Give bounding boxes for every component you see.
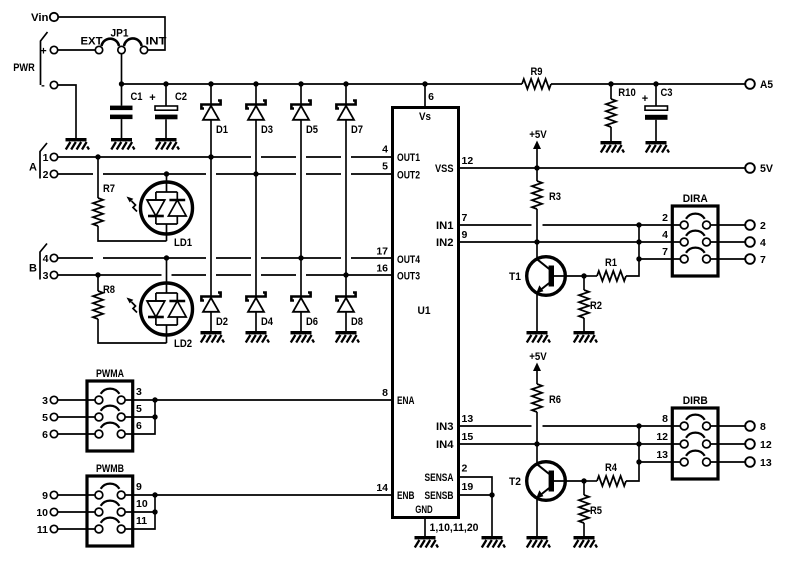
wire IN2 line bbox=[459, 241, 681, 243]
svg-text:+5V: +5V bbox=[529, 129, 547, 141]
wire R3 to IN2 junction bbox=[536, 209, 538, 242]
wire OUT2 segment c bbox=[216, 173, 296, 175]
connector PWMA pin circle row2 right bbox=[117, 413, 125, 421]
svg-text:R7: R7 bbox=[103, 183, 115, 195]
wire IN1 segment b bbox=[543, 224, 681, 226]
junction OUT3/R8 bbox=[95, 272, 100, 277]
terminal B pin3 bbox=[50, 271, 57, 278]
svg-text:U1: U1 bbox=[418, 305, 431, 317]
junction IN1/DIRA col bbox=[636, 222, 641, 227]
wire rail to D5 bbox=[300, 84, 302, 105]
connector PWMA jumper arc row3 bbox=[101, 423, 120, 428]
junction OUT4/D5-D6 bbox=[298, 255, 303, 260]
connector DIRA jumper arc row1 bbox=[686, 214, 705, 219]
junction OUT1/R7 bbox=[95, 154, 100, 159]
svg-text:9: 9 bbox=[42, 490, 48, 502]
jumper JP1 pin INT bbox=[140, 46, 147, 53]
resistor R3 bbox=[532, 181, 542, 209]
wire OUT4 segment a bbox=[58, 257, 93, 259]
svg-text:6: 6 bbox=[136, 420, 142, 432]
wire Vs rail left section bbox=[122, 83, 523, 85]
svg-text:OUT2: OUT2 bbox=[397, 170, 420, 182]
wire R5 top bbox=[583, 481, 585, 495]
wire C2 bottom bbox=[165, 119, 167, 138]
svg-text:ENA: ENA bbox=[397, 395, 415, 407]
wire OUT1 segment d bbox=[351, 156, 393, 158]
svg-text:2: 2 bbox=[760, 220, 766, 232]
wire rail to D1 bbox=[210, 84, 212, 105]
wire OUT1 segment b bbox=[261, 156, 296, 158]
resistor R7 bbox=[93, 198, 103, 226]
terminal DIRA 7 bbox=[745, 254, 755, 264]
wire D2 to ground bbox=[210, 312, 212, 331]
junction OUT1/D1-D2 bbox=[208, 154, 213, 159]
connector PWMB pin circle row1 left bbox=[95, 491, 103, 499]
svg-text:13: 13 bbox=[462, 413, 474, 425]
junction DIRB col row13 bbox=[636, 459, 641, 464]
wire IN3 segment a bbox=[459, 425, 532, 427]
wire node to R1 bbox=[584, 275, 597, 277]
svg-text:17: 17 bbox=[376, 246, 388, 258]
wire U1 pin6 stub bbox=[424, 84, 426, 108]
ground (D8) bbox=[336, 331, 360, 343]
wire D6 to ground bbox=[300, 312, 302, 331]
ground (SENS) bbox=[482, 536, 506, 548]
wire R7 bottom to LD1 bbox=[98, 226, 167, 241]
connector PWMB box bbox=[87, 476, 133, 546]
terminal A pin2 bbox=[50, 170, 57, 177]
wire rail to D3 bbox=[255, 84, 257, 105]
terminal PWMA 3 bbox=[50, 396, 57, 403]
svg-text:1,10,11,20: 1,10,11,20 bbox=[430, 522, 479, 534]
svg-text:R1: R1 bbox=[605, 257, 617, 269]
svg-text:3: 3 bbox=[43, 270, 49, 282]
wire IN3 segment b bbox=[543, 425, 681, 427]
ground (D4) bbox=[246, 331, 270, 343]
svg-text:3: 3 bbox=[42, 395, 48, 407]
resistor R9 bbox=[522, 79, 551, 89]
connector PWMB jumper arc row3 bbox=[101, 518, 120, 523]
svg-text:OUT1: OUT1 bbox=[397, 152, 420, 164]
wire PWMB row3 out bbox=[125, 495, 155, 529]
svg-text:Vs: Vs bbox=[419, 111, 431, 123]
wire U1 GND stub bbox=[424, 518, 426, 537]
svg-text:16: 16 bbox=[376, 263, 388, 275]
connector DIRB box bbox=[672, 408, 718, 479]
wire R10 bottom bbox=[610, 127, 612, 141]
junction IN2/DIRA col bbox=[636, 239, 641, 244]
svg-text:12: 12 bbox=[760, 439, 772, 451]
connector DIRA jumper arc row2 bbox=[686, 231, 705, 236]
wire SENSA bbox=[459, 477, 493, 495]
connector A bracket bbox=[40, 143, 47, 179]
svg-text:10: 10 bbox=[36, 507, 48, 519]
resistor R4 bbox=[597, 476, 626, 486]
wire R6 to IN4 junction bbox=[536, 412, 538, 444]
wire PWMA row2 out bbox=[125, 416, 155, 418]
svg-text:1: 1 bbox=[43, 152, 49, 164]
wire D1 to D2 bbox=[210, 120, 212, 297]
jumper JP1 arc center-INT bbox=[124, 38, 142, 46]
diode D7 bbox=[336, 101, 355, 120]
connector PWMA box bbox=[87, 381, 133, 451]
connector PWR bracket bbox=[41, 32, 48, 85]
svg-text:SENSA: SENSA bbox=[425, 472, 454, 484]
svg-text:+: + bbox=[642, 93, 648, 105]
wire PWR- to ground bbox=[58, 85, 76, 138]
diode D1 bbox=[201, 101, 220, 120]
terminal DIRB 12 bbox=[745, 439, 755, 449]
svg-text:4: 4 bbox=[662, 229, 668, 241]
wire R5 bottom bbox=[583, 523, 585, 536]
terminal DIRA 2 bbox=[745, 220, 755, 230]
wire VSS dot to R3 bbox=[536, 168, 538, 181]
wire DIRB row13 to terminal bbox=[711, 461, 746, 463]
connector PWMB jumper arc row1 bbox=[101, 484, 120, 489]
junction rail/D5 bbox=[298, 81, 303, 86]
svg-text:9: 9 bbox=[136, 481, 142, 493]
svg-text:14: 14 bbox=[376, 482, 388, 494]
svg-text:R2: R2 bbox=[590, 300, 602, 312]
svg-text:IN1: IN1 bbox=[436, 220, 454, 232]
svg-text:5: 5 bbox=[382, 161, 388, 173]
connector PWMB pin circle row3 left bbox=[95, 525, 103, 533]
junction rail/R10 bbox=[608, 81, 613, 86]
wire D5 to D6 bbox=[300, 120, 302, 297]
connector DIRB jumper arc row3 bbox=[686, 451, 705, 456]
wire C1 top bbox=[121, 84, 123, 106]
wire +5V lower to R6 bbox=[536, 371, 538, 384]
svg-text:PWR: PWR bbox=[13, 62, 35, 74]
connector PWMB jumper arc row2 bbox=[101, 501, 120, 506]
junction OUT3/D7-D8 bbox=[343, 272, 348, 277]
svg-text:8: 8 bbox=[662, 413, 668, 425]
wire Vin to INT bbox=[58, 17, 165, 50]
wire PWMB t9 to box bbox=[58, 494, 95, 496]
jumper JP1 pin EXT bbox=[95, 46, 102, 53]
ground (T1 emitter) bbox=[527, 331, 551, 343]
terminal Vin bbox=[50, 13, 58, 21]
svg-text:12: 12 bbox=[462, 155, 474, 167]
svg-text:6: 6 bbox=[42, 429, 48, 441]
svg-text:2: 2 bbox=[462, 463, 468, 475]
svg-text:OUT4: OUT4 bbox=[397, 254, 421, 266]
ground (D6) bbox=[291, 331, 315, 343]
ground (T2 emitter) bbox=[527, 536, 551, 548]
connector PWMB pin circle row2 right bbox=[117, 508, 125, 516]
wire D7 to D8 bbox=[345, 120, 347, 297]
svg-text:10: 10 bbox=[136, 498, 148, 510]
terminal PWMB 9 bbox=[50, 491, 57, 498]
connector DIRB pin circle row1 left bbox=[680, 422, 688, 430]
wire IN1 segment a bbox=[459, 224, 532, 226]
connector DIRB pin circle row2 left bbox=[680, 440, 688, 448]
svg-text:2: 2 bbox=[662, 212, 668, 224]
svg-text:C1: C1 bbox=[131, 91, 143, 103]
connector DIRA pin circle row3 left bbox=[680, 255, 688, 263]
svg-text:PWMA: PWMA bbox=[96, 368, 124, 380]
terminal PWMB 10 bbox=[50, 508, 57, 515]
connector DIRB pin circle row3 left bbox=[680, 458, 688, 466]
svg-text:INT: INT bbox=[146, 36, 167, 48]
resistor R2 bbox=[579, 290, 589, 318]
wire PWMB t10 to box bbox=[58, 511, 95, 513]
svg-text:+5V: +5V bbox=[529, 351, 547, 363]
wire T2 emitter to ground bbox=[536, 498, 538, 537]
svg-text:D5: D5 bbox=[306, 124, 318, 136]
svg-text:D3: D3 bbox=[261, 124, 273, 136]
wire LD1 top bbox=[166, 174, 168, 182]
svg-text:LD2: LD2 bbox=[174, 338, 192, 350]
wire R8 bottom to LD2 bbox=[98, 319, 167, 343]
svg-text:-: - bbox=[41, 80, 45, 92]
svg-text:DIRA: DIRA bbox=[683, 193, 708, 205]
junction rail/D3 bbox=[253, 81, 258, 86]
connector PWMA pin circle row1 left bbox=[95, 396, 103, 404]
LED pair LD2 bbox=[127, 283, 193, 335]
wire LD2 bottom stub bbox=[166, 335, 168, 343]
diode D5 bbox=[291, 101, 310, 120]
svg-text:5: 5 bbox=[136, 403, 142, 415]
wire DIRB row8 to terminal bbox=[711, 425, 746, 427]
wire R10 top bbox=[610, 84, 612, 99]
svg-text:C3: C3 bbox=[661, 87, 673, 99]
diode D6 bbox=[291, 293, 310, 312]
svg-text:R5: R5 bbox=[590, 505, 602, 517]
wire SENSB bbox=[459, 494, 493, 496]
wire OUT2 segment b bbox=[103, 173, 206, 175]
junction VSS/+5V bbox=[534, 165, 539, 170]
svg-text:7: 7 bbox=[662, 246, 668, 258]
svg-text:IN3: IN3 bbox=[436, 421, 454, 433]
wire LD1 bottom stub bbox=[166, 234, 168, 241]
svg-text:ENB: ENB bbox=[397, 490, 415, 502]
svg-text:+: + bbox=[40, 46, 46, 58]
connector DIRB pin circle row1 right bbox=[703, 422, 711, 430]
wire VSS to 5V terminal bbox=[459, 167, 746, 169]
connector PWMB pin circle row1 right bbox=[117, 491, 125, 499]
wire DIRA row7 to terminal bbox=[711, 258, 746, 260]
svg-text:2: 2 bbox=[43, 169, 49, 181]
wire PWMA t5 to box bbox=[58, 416, 95, 418]
ground (D2) bbox=[201, 331, 225, 343]
svg-text:Vin: Vin bbox=[31, 12, 49, 24]
wire Vs rail right section bbox=[551, 83, 746, 85]
resistor R10 bbox=[606, 99, 616, 127]
power +5V (lower) arrow bbox=[533, 363, 541, 372]
svg-text:A5: A5 bbox=[760, 79, 773, 91]
terminal B pin4 bbox=[50, 254, 57, 261]
ground (R10) bbox=[601, 141, 625, 153]
wire PWMB row2 out bbox=[125, 511, 155, 513]
terminal DIRA 4 bbox=[745, 237, 755, 247]
wire PWR+ to EXT bbox=[58, 49, 95, 51]
connector PWMB pin circle row2 left bbox=[95, 508, 103, 516]
junction IN2/R3-T1 bbox=[534, 239, 539, 244]
junction rail/C3 bbox=[653, 81, 658, 86]
wire R8 top bbox=[97, 275, 99, 291]
wire C3 top bbox=[655, 84, 657, 106]
svg-text:C2: C2 bbox=[175, 91, 187, 103]
connector DIRB pin circle row3 right bbox=[703, 458, 711, 466]
connector PWMA jumper arc row2 bbox=[101, 406, 120, 411]
wire OUT1 segment c bbox=[306, 156, 341, 158]
ground (C2) bbox=[156, 138, 180, 150]
wire T1 base to R1/R2 node bbox=[554, 275, 584, 277]
svg-text:R10: R10 bbox=[618, 87, 636, 99]
connector DIRB jumper arc row2 bbox=[686, 433, 705, 438]
capacitor C3 bbox=[645, 106, 668, 120]
wire OUT1 segment a bbox=[58, 156, 251, 158]
svg-text:A: A bbox=[29, 162, 37, 174]
svg-text:GND: GND bbox=[415, 504, 433, 516]
power +5V (upper) arrow bbox=[533, 141, 541, 150]
junction IN4/R6-T2 bbox=[534, 441, 539, 446]
wire SENS node to ground bbox=[491, 495, 493, 536]
svg-text:OUT3: OUT3 bbox=[397, 271, 420, 283]
terminal 5V bbox=[745, 163, 755, 173]
connector DIRA pin circle row2 right bbox=[703, 238, 711, 246]
svg-text:R3: R3 bbox=[549, 191, 561, 203]
wire rail to D7 bbox=[345, 84, 347, 105]
svg-text:D2: D2 bbox=[216, 316, 228, 328]
resistor R6 bbox=[532, 384, 542, 412]
wire T1 collector bbox=[536, 242, 538, 260]
wire PWMA row3 out bbox=[125, 400, 155, 434]
ground (PWR-) bbox=[66, 138, 90, 150]
wire DIRA row7 line bbox=[639, 258, 680, 260]
wire D3 to D4 bbox=[255, 120, 257, 297]
terminal PWMA 6 bbox=[50, 430, 57, 437]
wire ENA line bbox=[125, 399, 392, 401]
terminal PWR + bbox=[50, 46, 57, 53]
svg-text:15: 15 bbox=[462, 431, 474, 443]
wire OUT3 segment a bbox=[58, 274, 162, 276]
capacitor C2 bbox=[155, 106, 178, 119]
wire C2 top bbox=[165, 84, 167, 106]
connector DIRA pin circle row1 right bbox=[703, 221, 711, 229]
connector DIRB pin circle row2 right bbox=[703, 440, 711, 448]
resistor R8 bbox=[93, 291, 103, 319]
svg-text:5: 5 bbox=[42, 412, 48, 424]
wire ENB line bbox=[125, 494, 392, 496]
svg-text:12: 12 bbox=[656, 431, 668, 443]
wire R2 bottom bbox=[583, 318, 585, 331]
svg-text:7: 7 bbox=[760, 254, 766, 266]
connector DIRA pin circle row3 right bbox=[703, 255, 711, 263]
svg-text:4: 4 bbox=[43, 253, 49, 265]
wire OUT3 segment c bbox=[216, 274, 251, 276]
junction T2 base/R4/R5 bbox=[581, 478, 586, 483]
wire OUT4 segment e bbox=[351, 257, 393, 259]
jumper JP1 arc EXT-center bbox=[102, 39, 120, 46]
svg-text:JP1: JP1 bbox=[111, 28, 129, 40]
svg-text:6: 6 bbox=[428, 91, 434, 103]
svg-text:13: 13 bbox=[760, 457, 772, 469]
svg-text:7: 7 bbox=[462, 212, 468, 224]
wire T2 collector bbox=[536, 444, 538, 465]
svg-text:T1: T1 bbox=[509, 271, 521, 283]
svg-text:D4: D4 bbox=[261, 316, 274, 328]
wire DIRB row13 line bbox=[639, 461, 680, 463]
svg-text:19: 19 bbox=[462, 481, 474, 493]
connector PWMB pin circle row3 right bbox=[117, 525, 125, 533]
junction rail/C1 bbox=[119, 81, 124, 86]
svg-text:9: 9 bbox=[462, 229, 468, 241]
wire R7 top bbox=[97, 157, 99, 198]
junction ENA bus row2 bbox=[152, 414, 157, 419]
terminal PWMB 11 bbox=[50, 525, 57, 532]
wire OUT3 segment d bbox=[261, 274, 296, 276]
junction rail/U1 pin6 bbox=[422, 81, 427, 86]
svg-text:4: 4 bbox=[382, 144, 388, 156]
wire OUT3 segment b bbox=[172, 274, 207, 276]
wire OUT4 segment d bbox=[261, 257, 341, 259]
junction OUT4/LD2 bbox=[164, 255, 169, 260]
wire IN4 line bbox=[459, 443, 681, 445]
connector DIRA jumper arc row3 bbox=[686, 248, 705, 253]
ground (C3) bbox=[646, 141, 670, 153]
ground (C1) bbox=[111, 138, 135, 150]
junction rail/D7 bbox=[343, 81, 348, 86]
wire DIRA row4 to terminal bbox=[711, 241, 746, 243]
svg-text:VSS: VSS bbox=[435, 163, 454, 175]
junction DIRA col row7 bbox=[636, 256, 641, 261]
connector DIRA box bbox=[672, 206, 718, 276]
svg-text:D7: D7 bbox=[351, 124, 363, 136]
resistor R1 bbox=[597, 271, 626, 281]
wire +5V upper to VSS line bbox=[536, 149, 538, 168]
svg-text:R6: R6 bbox=[549, 394, 561, 406]
connector DIRB jumper arc row1 bbox=[686, 415, 705, 420]
wire R1 to DIRA column bbox=[626, 225, 639, 276]
wire node to R4 bbox=[584, 480, 597, 482]
wire OUT2 segment d bbox=[306, 173, 341, 175]
junction ENA bus row1 bbox=[152, 397, 157, 402]
terminal A pin1 bbox=[50, 153, 57, 160]
junction OUT2/D3-D4 bbox=[253, 171, 258, 176]
wire PWMA t3 to box bbox=[58, 399, 95, 401]
svg-text:SENSB: SENSB bbox=[425, 490, 454, 502]
junction OUT2/LD1 bbox=[164, 171, 169, 176]
wire OUT2 segment a bbox=[58, 173, 93, 175]
connector DIRA pin circle row1 left bbox=[680, 221, 688, 229]
wire C1 bottom bbox=[121, 119, 123, 138]
svg-text:11: 11 bbox=[37, 524, 48, 536]
junction ENB bus row2 bbox=[152, 509, 157, 514]
junction IN4/DIRB col bbox=[636, 441, 641, 446]
svg-text:5V: 5V bbox=[760, 163, 774, 175]
wire JP1 center down to Vs rail bbox=[121, 54, 123, 84]
wire R2 top bbox=[583, 276, 585, 290]
svg-text:IN4: IN4 bbox=[436, 439, 454, 451]
svg-text:R9: R9 bbox=[531, 66, 543, 78]
terminal A5 bbox=[745, 79, 755, 89]
diode D4 bbox=[246, 293, 265, 312]
svg-text:T2: T2 bbox=[509, 476, 521, 488]
connector PWMA jumper arc row1 bbox=[101, 389, 120, 394]
svg-text:4: 4 bbox=[760, 237, 766, 249]
wire DIRB row12 to terminal bbox=[711, 443, 746, 445]
junction T1 base/R1/R2 bbox=[581, 273, 586, 278]
svg-text:R8: R8 bbox=[103, 284, 115, 296]
svg-text:D8: D8 bbox=[351, 316, 363, 328]
junction IN3/DIRB col bbox=[636, 423, 641, 428]
svg-text:B: B bbox=[29, 263, 37, 275]
svg-text:LD1: LD1 bbox=[174, 237, 192, 249]
diode D8 bbox=[336, 293, 355, 312]
jumper JP1 pin center bbox=[118, 46, 125, 53]
